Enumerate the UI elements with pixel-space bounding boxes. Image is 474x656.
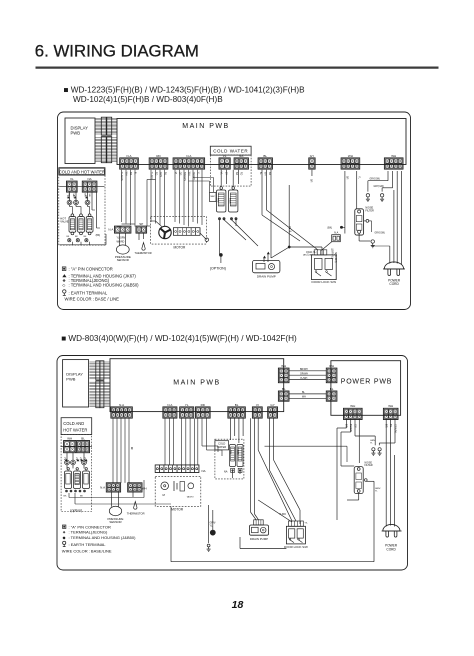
connector BL (278, 387, 289, 401)
connector BL (228, 403, 245, 418)
wires valves (diagram 2) (67, 452, 84, 468)
wire labels below power connectors (345, 424, 398, 434)
svg-text:WH: WH (348, 154, 353, 158)
noise filter (diagram 2) (354, 462, 373, 494)
svg-text:PK: PK (164, 172, 167, 176)
door lock switch (diagram 2) (284, 521, 308, 549)
drain pump (diagram 2) (250, 520, 269, 541)
svg-text:BL: BL (389, 424, 393, 428)
svg-text:HOT WATER: HOT WATER (63, 428, 87, 433)
junction dot with option (210, 253, 226, 270)
svg-text:BR/WH: BR/WH (300, 369, 308, 371)
svg-text:THERMISTOR: THERMISTOR (127, 511, 145, 515)
connector NA (234, 154, 248, 169)
cold water dashed outline 2 (diagram 2) (215, 439, 244, 479)
svg-text:NA: NA (202, 469, 206, 473)
ribbon cable display-main (89, 381, 109, 408)
connector N.A (100, 483, 120, 492)
svg-text:CORD: CORD (386, 547, 396, 551)
svg-text:BL: BL (330, 387, 334, 391)
svg-text:GY: GY (225, 172, 228, 176)
svg-text:N(BL,WH): N(BL,WH) (334, 252, 336, 263)
noise filter (diagram 1) (355, 207, 374, 236)
svg-text:VI: VI (256, 403, 259, 407)
svg-text:NA: NA (235, 172, 238, 176)
earth terminal (380, 194, 384, 202)
svg-text:GRY(GM): GRY(GM) (375, 233, 385, 235)
svg-text:DRAIN PUMP: DRAIN PUMP (250, 537, 268, 541)
svg-text:: "A" PIN CONNECTOR: : "A" PIN CONNECTOR (69, 524, 111, 529)
svg-text:SENSOR: SENSOR (117, 258, 129, 262)
valve coils (diagram 2) (65, 460, 87, 465)
svg-text:GRN: GRN (159, 172, 162, 178)
svg-text:SP: SP (139, 222, 143, 226)
svg-text:VI: VI (174, 172, 177, 175)
connector N.A (108, 226, 131, 233)
svg-text:: "A" PIN CONNECTOR: : "A" PIN CONNECTOR (69, 267, 113, 272)
grn/yl label b (diagram 2) (375, 488, 381, 493)
cold and hot water dashed outline (diagram 2) (61, 435, 92, 512)
svg-text:OR/WH: OR/WH (300, 373, 308, 375)
connector RD (149, 154, 168, 169)
svg-text:6. WIRING DIAGRAM: 6. WIRING DIAGRAM (35, 41, 199, 60)
svg-text:YL/WH: YL/WH (300, 378, 308, 380)
svg-text:GRY(GM): GRY(GM) (374, 186, 384, 188)
cold and hot water dashed outline (diagram 1) (59, 175, 105, 245)
connector SP (136, 222, 147, 233)
svg-text:BL: BL (263, 154, 267, 158)
connector N.A (111, 403, 132, 418)
connector YL (180, 403, 194, 418)
svg-text:■ WD-803(4)0(W)(F)(H) / WD-102: ■ WD-803(4)0(W)(F)(H) / WD-102(4)1(5)W(F… (61, 334, 297, 343)
ribbon cable display-main (89, 361, 109, 380)
svg-text:BR: BR (310, 179, 313, 183)
svg-text:WATER: WATER (217, 445, 226, 449)
wires to drain pump and door lock (220, 170, 323, 262)
wires noise filter to plug (359, 221, 390, 246)
svg-text:WH: WH (350, 404, 355, 408)
motor dashed box (diagram 1) (151, 216, 207, 244)
wire bundle main pwb down (diagram 2) (113, 418, 222, 483)
thermistor (diagram 1) (135, 233, 152, 255)
svg-text:PWB: PWB (66, 376, 75, 381)
svg-text:THERMISTOR: THERMISTOR (135, 251, 152, 255)
wires main-power interconnect (289, 369, 327, 399)
legend (diagram 2) (62, 524, 136, 553)
connector GY (268, 403, 278, 418)
wires cold water valves (221, 170, 238, 187)
svg-text:MAIN: MAIN (237, 450, 240, 456)
svg-text:BR: BR (346, 176, 349, 180)
svg-text:WH: WH (329, 364, 334, 368)
display pwb (diagram 1) (65, 118, 95, 164)
connector N.A (173, 154, 205, 169)
ribbon cable display-main (95, 117, 117, 135)
main pwb board (diagram 1) (117, 119, 406, 165)
svg-text:MAIN: MAIN (229, 198, 232, 204)
svg-text:(BK): (BK) (96, 235, 101, 237)
svg-text:WH: WH (391, 154, 396, 158)
svg-text:GY: GY (353, 424, 357, 428)
svg-text:: EARTH TERMINAL: : EARTH TERMINAL (69, 542, 107, 547)
cold water label box (diagram 1) (210, 146, 251, 155)
connector BL (77, 436, 90, 452)
svg-text:TACHO: TACHO (187, 496, 195, 499)
motor terminal circle right (200, 233, 209, 241)
drain pump (diagram 1) (253, 252, 280, 279)
pressure sensor (diagram 1) (115, 233, 131, 262)
connector RD (196, 403, 211, 418)
cold water valve bodies (diagram 1) (217, 187, 238, 212)
motor dashed box (diagram 2) (155, 476, 201, 506)
connector WH (64, 436, 76, 452)
svg-text:Q(GN,YL): Q(GN,YL) (306, 251, 317, 254)
svg-text:SENSOR: SENSOR (109, 520, 121, 524)
svg-text:GY: GY (270, 403, 274, 407)
connector WH (384, 154, 403, 169)
svg-text:COLD: COLD (218, 442, 225, 446)
svg-text:■ WD-1223(5)F(H)(B) / WD-1243(: ■ WD-1223(5)F(H)(B) / WD-1243(5)F(H)(B) … (64, 86, 306, 95)
svg-text:FILTER: FILTER (365, 464, 373, 467)
svg-text:RD: RD (155, 172, 158, 176)
connector WH (128, 483, 142, 492)
diagram 2 frame (57, 356, 408, 571)
svg-text:N.A: N.A (167, 403, 172, 407)
legend (diagram 1) (62, 267, 139, 302)
connector VI (252, 403, 262, 418)
svg-text:NA: NA (224, 469, 228, 473)
svg-text:RD: RD (240, 172, 243, 176)
display pwb (diagram 2) (63, 360, 89, 407)
svg-text:MOTOR: MOTOR (171, 507, 184, 511)
connector WH (326, 364, 337, 383)
power pwb board (diagram 2) (331, 361, 401, 416)
svg-text:WH: WH (281, 364, 286, 368)
svg-text:18: 18 (232, 599, 244, 611)
pressure sensor (diagram 2) (108, 491, 124, 524)
vertical text labels left of plug (331, 248, 337, 263)
svg-text:: TERMINAL(JEONG): : TERMINAL(JEONG) (69, 530, 108, 535)
connector WH (344, 404, 363, 419)
title underline rule (36, 66, 439, 68)
svg-text:YL: YL (185, 403, 189, 407)
wires center (diagram 2) (231, 418, 301, 524)
svg-text:GY: GY (310, 154, 314, 158)
svg-text:NA: NA (239, 154, 243, 158)
wires noise filter to frame (diagram 2) (171, 466, 374, 562)
connector N.A (163, 403, 177, 418)
main pwb board (diagram 2) (110, 359, 284, 412)
valve terminals (67, 236, 89, 242)
svg-text:MAIN PWB: MAIN PWB (173, 380, 220, 387)
svg-text:NAT: NAT (211, 195, 216, 198)
svg-text:SB/GRN: SB/GRN (183, 172, 186, 181)
svg-text:: EARTH TERMINAL: : EARTH TERMINAL (69, 291, 108, 296)
wire pair count marks (diagram 2) (64, 457, 88, 461)
wires to power plug (diagram 1) (390, 171, 402, 265)
svg-text:: TERMINAL AND HOUSING (J&B50): : TERMINAL AND HOUSING (J&B50) (69, 535, 137, 540)
wire labels under cold-hot connectors (diagram 1) (68, 194, 91, 198)
svg-text:WH: WH (67, 436, 72, 440)
svg-text:SB: SB (268, 172, 271, 176)
svg-text:MOTOR: MOTOR (174, 246, 187, 250)
svg-text:VL: VL (223, 154, 227, 158)
svg-text:WH: WH (264, 172, 267, 176)
svg-text:(BK): (BK) (327, 228, 332, 230)
svg-text:N.A: N.A (126, 154, 131, 158)
earth terminal (371, 240, 375, 248)
nat small box (210, 193, 217, 202)
wire bundle main pwb to components (diagram 1) (117, 170, 214, 227)
svg-text:MAIN PWB: MAIN PWB (182, 123, 229, 130)
svg-text:POWER PWB: POWER PWB (341, 379, 393, 386)
svg-text:FILTER: FILTER (365, 209, 374, 212)
earth terminal (378, 448, 382, 456)
svg-text:N.A: N.A (119, 403, 124, 407)
svg-text:OR: OR (179, 172, 182, 176)
svg-text:OR/WH: OR/WH (192, 172, 195, 181)
connector WH (278, 364, 289, 383)
svg-text:DOOR LOCK S/W: DOOR LOCK S/W (312, 280, 337, 284)
labels under pressure connector (diagram 1) (117, 238, 126, 244)
earth terminal dot (diagram 2) (209, 505, 216, 543)
wire pair marks (diagram 1 valves) (67, 194, 88, 198)
svg-text:CORD: CORD (389, 282, 399, 286)
svg-text:BL: BL (81, 436, 85, 440)
svg-text:COLD AND HOT WATER: COLD AND HOT WATER (59, 170, 105, 175)
svg-text:GRY(GM): GRY(GM) (370, 179, 380, 181)
hot valve label (60, 216, 68, 223)
connector N.A (120, 154, 139, 169)
water valve assembly (diagram 2) (64, 468, 172, 504)
earth terminal (371, 448, 375, 456)
svg-text:2: 2 (289, 226, 291, 230)
connector WH (341, 154, 360, 169)
svg-text:WH: WH (142, 487, 147, 491)
svg-text:BL: BL (282, 387, 286, 391)
motor terminal strip (diagram 2) (155, 465, 205, 473)
connector VL (219, 154, 230, 169)
svg-text:(option): (option) (70, 508, 82, 512)
connector BL (258, 154, 272, 169)
svg-text:WD-102(4)1(5)F(H)B / WD-803(4): WD-102(4)1(5)F(H)B / WD-803(4)0F(H)B (73, 95, 223, 104)
thermistor (diagram 2) (127, 491, 145, 515)
earth terminal (366, 194, 370, 202)
wires right section (diagram 1) (310, 170, 393, 234)
cold water label box (diagram 2) (215, 441, 229, 450)
ribbon cable display-main (95, 137, 117, 163)
svg-text:WIRE COLOR : BASE/LINE: WIRE COLOR : BASE/LINE (62, 549, 112, 554)
wires power pwb down (diagram 2) (337, 419, 395, 527)
svg-text:DRAIN PUMP: DRAIN PUMP (257, 274, 276, 278)
svg-text:VL: VL (70, 177, 74, 181)
cold and hot water label box (diagram 1) (59, 168, 105, 175)
power plug (diagram 1) (383, 262, 405, 286)
svg-text:BL: BL (235, 403, 239, 407)
wire bus through cold-hot connectors (diagram 1) (59, 185, 104, 187)
svg-text:WH: WH (188, 172, 191, 176)
connector WH (383, 404, 398, 419)
n.a terminal block right (321, 232, 340, 251)
svg-text:YL/RD: YL/RD (279, 514, 286, 516)
wire color labels under connectors 1 (120, 172, 271, 181)
wire horizontal bus right (diagram 2) (265, 445, 348, 447)
motor fan symbol (147, 221, 171, 239)
svg-text:(OPTION): (OPTION) (210, 267, 226, 271)
wires valve assembly (59, 191, 106, 245)
svg-text:VALVE: VALVE (60, 219, 68, 223)
svg-text:YL/GRN: YL/GRN (117, 238, 126, 240)
connector GY (309, 154, 315, 169)
connector BL (326, 387, 337, 401)
cold water valves (diagram 2) (224, 445, 243, 474)
svg-text:L(BRN,VL): L(BRN,VL) (331, 248, 333, 259)
connector NA (82, 177, 97, 192)
svg-text:WH/RD: WH/RD (117, 241, 125, 243)
water valve assembly (hot) (69, 214, 93, 235)
valve coil symbols (hot/cold) (67, 200, 90, 205)
motor terminal strip (173, 228, 200, 236)
svg-text:WH: WH (302, 397, 306, 399)
earth terminal (207, 544, 211, 551)
grn/yl labels (diagram 2) (370, 440, 376, 445)
power plug (diagram 2) (382, 524, 402, 551)
svg-text:N.A: N.A (186, 154, 191, 158)
svg-text:N.A: N.A (108, 228, 113, 232)
svg-text:NA: NA (88, 177, 92, 181)
svg-text:YL/RD: YL/RD (150, 172, 153, 179)
svg-text:N.A: N.A (334, 232, 339, 235)
connector VL (67, 177, 78, 192)
wire horizontal bus cold-hot (diagram 2) (61, 446, 93, 448)
svg-text:PRE: PRE (229, 450, 231, 455)
diagram 1 frame (58, 112, 411, 310)
svg-text:PWB: PWB (71, 131, 81, 136)
cold and hot water label box (diagram 2) (61, 418, 92, 435)
door lock switch (diagram 1) (312, 250, 337, 284)
svg-text:PRE: PRE (217, 198, 219, 203)
svg-text:COLD AND: COLD AND (63, 421, 84, 426)
valve terminals cold (218, 218, 237, 220)
svg-text:WIRE COLOR : BASE / LINE: WIRE COLOR : BASE / LINE (65, 296, 120, 301)
svg-text:GRN/YL: GRN/YL (393, 424, 397, 434)
svg-text:N.A: N.A (100, 485, 105, 489)
motor components (diagram 2) (161, 481, 194, 499)
svg-text:DOOR LOCK S/W: DOOR LOCK S/W (284, 545, 308, 549)
svg-text:WH: WH (388, 404, 393, 408)
cold water dashed outline (diagram 1) (210, 155, 251, 186)
svg-text:: TERMINAL AND HOUSING (J&B50): : TERMINAL AND HOUSING (J&B50) (69, 283, 140, 288)
